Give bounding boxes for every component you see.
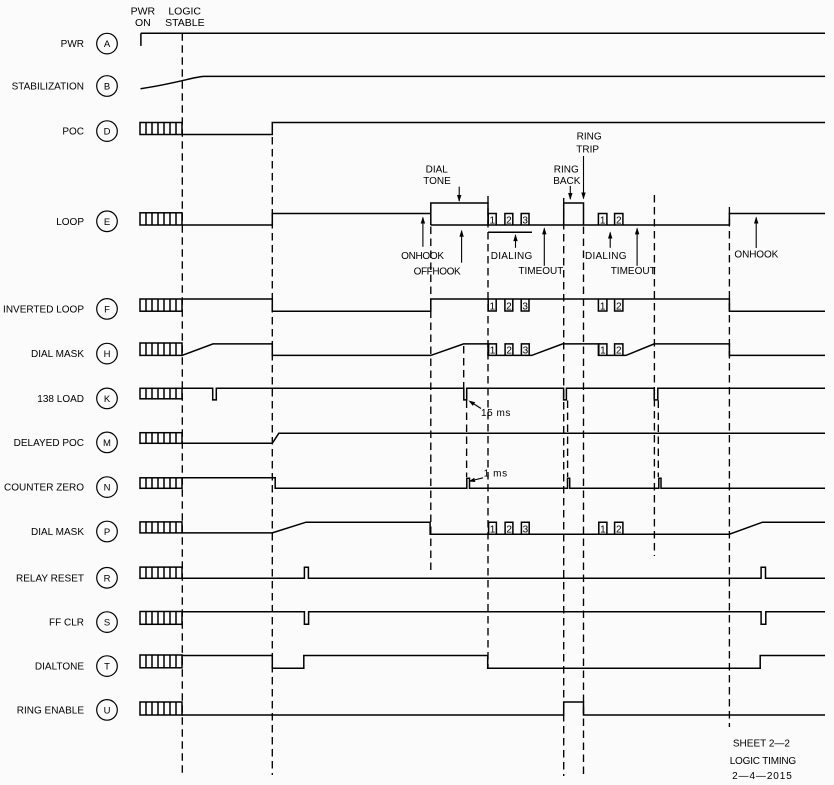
svg-text:TONE: TONE bbox=[423, 176, 451, 187]
annotation 15 ms bbox=[469, 401, 511, 420]
svg-text:138 LOAD: 138 LOAD bbox=[37, 394, 84, 405]
waveform RING ENABLE bbox=[182, 702, 825, 715]
annotation DIALING second bbox=[585, 232, 627, 263]
signal label RING ENABLE (U) bbox=[17, 700, 118, 721]
annotation TIMEOUT second bbox=[611, 227, 656, 277]
svg-text:TIMEOUT: TIMEOUT bbox=[611, 266, 656, 277]
svg-text:U: U bbox=[104, 706, 111, 717]
svg-text:DELAYED POC: DELAYED POC bbox=[14, 438, 84, 449]
waveform DIALTONE bbox=[182, 656, 825, 669]
waveform LOOP dial pulse 1b bbox=[598, 214, 607, 227]
dashed line OFFHOOK x=431 bbox=[430, 227, 432, 572]
svg-text:2: 2 bbox=[616, 215, 622, 226]
annotation 1 ms bbox=[469, 468, 508, 482]
waveform INVERTED LOOP dip 1b bbox=[598, 299, 607, 312]
svg-text:RING: RING bbox=[554, 165, 579, 176]
waveform INVERTED LOOP bbox=[182, 299, 825, 311]
svg-text:1: 1 bbox=[600, 301, 606, 312]
waveform INVERTED LOOP dip 2b bbox=[615, 299, 623, 312]
hatch box DELAYED POC bbox=[140, 433, 182, 444]
svg-text:STABILIZATION: STABILIZATION bbox=[12, 82, 84, 93]
annotation ONHOOK second bbox=[734, 217, 778, 261]
svg-text:3: 3 bbox=[523, 346, 529, 357]
waveform DIAL MASK H box 2 bbox=[505, 344, 513, 357]
waveform LOOP dial-tone box bbox=[431, 203, 488, 225]
svg-text:LOGIC: LOGIC bbox=[168, 6, 201, 18]
dashed line ring start x=564 bbox=[563, 198, 565, 776]
dialing bracket bbox=[488, 231, 532, 233]
svg-text:DIAL MASK: DIAL MASK bbox=[31, 527, 84, 538]
signal label COUNTER ZERO (N) bbox=[4, 477, 117, 498]
svg-text:1: 1 bbox=[490, 215, 496, 226]
waveform DELAYED POC bbox=[182, 433, 825, 443]
svg-text:K: K bbox=[104, 394, 111, 405]
svg-text:ONHOOK: ONHOOK bbox=[401, 251, 444, 262]
svg-text:RING: RING bbox=[577, 132, 602, 143]
svg-text:2: 2 bbox=[506, 524, 512, 535]
waveform RELAY RESET bbox=[182, 567, 825, 578]
svg-text:DIALING: DIALING bbox=[585, 251, 627, 262]
signal label DIAL MASK (P) bbox=[31, 521, 117, 542]
waveform INVERTED LOOP dip 1 bbox=[488, 299, 496, 312]
waveform DIAL MASK P box 1 bbox=[489, 522, 497, 535]
svg-text:PWR: PWR bbox=[61, 39, 84, 50]
svg-text:1: 1 bbox=[600, 215, 606, 226]
waveform 138 LOAD bbox=[182, 388, 825, 400]
dashed line LOGIC STABLE x=272 bbox=[271, 137, 273, 775]
svg-text:INVERTED LOOP: INVERTED LOOP bbox=[3, 304, 84, 315]
svg-text:DIALING: DIALING bbox=[491, 251, 533, 262]
svg-text:3: 3 bbox=[522, 215, 528, 226]
svg-text:BACK: BACK bbox=[553, 176, 581, 187]
waveform LOOP ring-back box bbox=[564, 203, 584, 225]
signal label DIALTONE (T) bbox=[35, 656, 117, 677]
signal label RELAY RESET (R) bbox=[16, 568, 117, 589]
svg-text:STABLE: STABLE bbox=[165, 17, 205, 29]
header label PWR ON bbox=[131, 6, 156, 30]
dashed line timeout x=654 bbox=[653, 195, 655, 556]
svg-text:LOOP: LOOP bbox=[56, 217, 84, 228]
svg-text:R: R bbox=[104, 573, 111, 584]
hatch box POC bbox=[140, 123, 182, 135]
svg-text:E: E bbox=[104, 217, 110, 228]
hatch box INVERTED LOOP bbox=[140, 299, 182, 311]
dashed connector K-N x=467 bbox=[466, 401, 468, 478]
svg-text:1 ms: 1 ms bbox=[484, 468, 508, 479]
svg-text:F: F bbox=[104, 305, 110, 316]
signal label POC (D) bbox=[62, 121, 117, 142]
waveform DIAL MASK H bbox=[182, 344, 825, 356]
svg-text:15 ms: 15 ms bbox=[481, 408, 511, 419]
waveform LOOP onhook segment bbox=[182, 214, 431, 226]
waveform INVERTED LOOP dip 2 bbox=[505, 299, 513, 312]
waveform DIAL MASK P box 2 bbox=[505, 522, 513, 535]
waveform POC bbox=[182, 123, 825, 135]
svg-text:1: 1 bbox=[490, 524, 496, 535]
hatch box DIAL MASK H bbox=[140, 343, 182, 355]
annotation RING TRIP bbox=[576, 132, 602, 200]
svg-text:2: 2 bbox=[616, 346, 622, 357]
waveform LOOP baseline bbox=[431, 224, 730, 226]
waveform DIAL MASK P bbox=[182, 522, 825, 534]
svg-text:2: 2 bbox=[506, 215, 512, 226]
svg-text:ON: ON bbox=[135, 17, 151, 29]
svg-text:PWR: PWR bbox=[131, 6, 156, 18]
annotation TIMEOUT first bbox=[518, 227, 563, 277]
signal label LOOP (E) bbox=[56, 211, 117, 232]
annotation OFFHOOK bbox=[414, 230, 464, 278]
dashed line ring trip x=583 bbox=[583, 227, 585, 777]
hatch box RING ENABLE bbox=[140, 702, 182, 715]
svg-text:POC: POC bbox=[62, 127, 84, 138]
svg-text:FF CLR: FF CLR bbox=[49, 618, 84, 629]
waveform COUNTER ZERO bbox=[182, 478, 825, 489]
hatch box 138 LOAD bbox=[140, 388, 182, 399]
svg-text:COUNTER ZERO: COUNTER ZERO bbox=[4, 483, 84, 494]
svg-text:1: 1 bbox=[490, 301, 496, 312]
hatch box FF CLR bbox=[140, 612, 182, 625]
hatch box RELAY RESET bbox=[140, 567, 182, 578]
waveform INVERTED LOOP dip 3 bbox=[521, 299, 529, 312]
hatch box DIALTONE bbox=[140, 655, 182, 668]
waveform DIAL MASK P box 1b bbox=[599, 522, 607, 535]
signal label DELAYED POC (M) bbox=[14, 432, 118, 453]
svg-text:DIAL MASK: DIAL MASK bbox=[31, 349, 84, 360]
svg-text:D: D bbox=[104, 127, 111, 138]
svg-text:S: S bbox=[104, 618, 110, 629]
waveform DIAL MASK P box 3 bbox=[521, 522, 529, 535]
waveform PWR high line bbox=[141, 32, 825, 34]
svg-text:2: 2 bbox=[506, 346, 512, 357]
annotation ONHOOK first bbox=[401, 217, 444, 262]
title block date bbox=[732, 771, 793, 782]
waveform LOOP final onhook bbox=[729, 214, 825, 226]
dashed connector K-N x=568 bbox=[567, 401, 569, 478]
annotation DIALING first bbox=[491, 234, 533, 262]
svg-text:ONHOOK: ONHOOK bbox=[734, 249, 778, 260]
dashed connector H-K x=464 bbox=[463, 346, 465, 388]
waveform DIAL MASK H box 1b bbox=[599, 344, 607, 357]
waveform DIAL MASK H box 3 bbox=[521, 344, 529, 357]
svg-text:1: 1 bbox=[490, 346, 496, 357]
hatch box DIAL MASK P bbox=[140, 522, 182, 533]
svg-text:P: P bbox=[104, 527, 110, 538]
svg-text:3: 3 bbox=[523, 524, 529, 535]
waveform LOOP dial pulse 2b bbox=[615, 214, 623, 227]
waveform STABILIZATION curve bbox=[141, 76, 826, 88]
svg-text:SHEET 2—2: SHEET 2—2 bbox=[733, 738, 790, 749]
svg-text:2: 2 bbox=[616, 524, 622, 535]
signal label DIAL MASK (H) bbox=[31, 343, 117, 364]
signal label FF CLR (S) bbox=[49, 612, 117, 633]
hatch box COUNTER ZERO bbox=[140, 478, 182, 489]
hatch box LOOP bbox=[140, 213, 182, 225]
svg-text:A: A bbox=[104, 39, 111, 50]
svg-text:DIALTONE: DIALTONE bbox=[35, 662, 84, 673]
waveform PWR rise stub bbox=[140, 33, 142, 46]
svg-text:DIAL: DIAL bbox=[426, 165, 449, 176]
waveform LOOP dial pulse 1 bbox=[488, 214, 496, 227]
dashed connector K-N x=658 bbox=[657, 401, 659, 478]
signal label INVERTED LOOP (F) bbox=[3, 299, 117, 320]
waveform LOOP dial pulse 2 bbox=[505, 214, 513, 227]
waveform LOOP dial pulse 3 bbox=[521, 214, 529, 227]
svg-text:1: 1 bbox=[600, 524, 606, 535]
signal label 138 LOAD (K) bbox=[37, 388, 117, 409]
annotation DIAL TONE bbox=[423, 165, 461, 202]
svg-text:M: M bbox=[103, 438, 111, 449]
svg-text:2: 2 bbox=[506, 301, 512, 312]
waveform FF CLR bbox=[182, 612, 825, 624]
title block sheet number bbox=[733, 738, 790, 749]
svg-text:2: 2 bbox=[616, 301, 622, 312]
svg-text:RING ENABLE: RING ENABLE bbox=[17, 705, 85, 716]
svg-text:1: 1 bbox=[600, 346, 606, 357]
title block drawing name bbox=[730, 756, 797, 767]
svg-text:H: H bbox=[104, 349, 111, 360]
svg-text:2—4—2015: 2—4—2015 bbox=[732, 771, 793, 782]
svg-text:3: 3 bbox=[522, 301, 528, 312]
dashed line dialing start x=488 bbox=[487, 196, 489, 668]
header label LOGIC STABLE bbox=[165, 6, 205, 30]
svg-text:RELAY RESET: RELAY RESET bbox=[16, 573, 84, 584]
dashed line onhook x=729 bbox=[728, 207, 730, 727]
svg-text:LOGIC TIMING: LOGIC TIMING bbox=[730, 756, 797, 767]
svg-text:TIMEOUT: TIMEOUT bbox=[518, 266, 563, 277]
svg-text:OFFHOOK: OFFHOOK bbox=[414, 266, 461, 277]
waveform DIAL MASK H box 1 bbox=[489, 344, 497, 357]
dashed line PWR ON x=182 bbox=[181, 33, 183, 777]
svg-text:T: T bbox=[104, 662, 110, 673]
waveform DIAL MASK P box 2b bbox=[615, 522, 623, 535]
annotation RING BACK bbox=[553, 165, 581, 201]
signal label STABILIZATION (B) bbox=[12, 76, 118, 97]
svg-text:TRIP: TRIP bbox=[576, 145, 599, 156]
svg-text:B: B bbox=[104, 82, 110, 93]
waveform DIAL MASK H box 2b bbox=[615, 344, 623, 357]
svg-text:N: N bbox=[104, 483, 111, 494]
signal label PWR (A) bbox=[61, 33, 118, 54]
